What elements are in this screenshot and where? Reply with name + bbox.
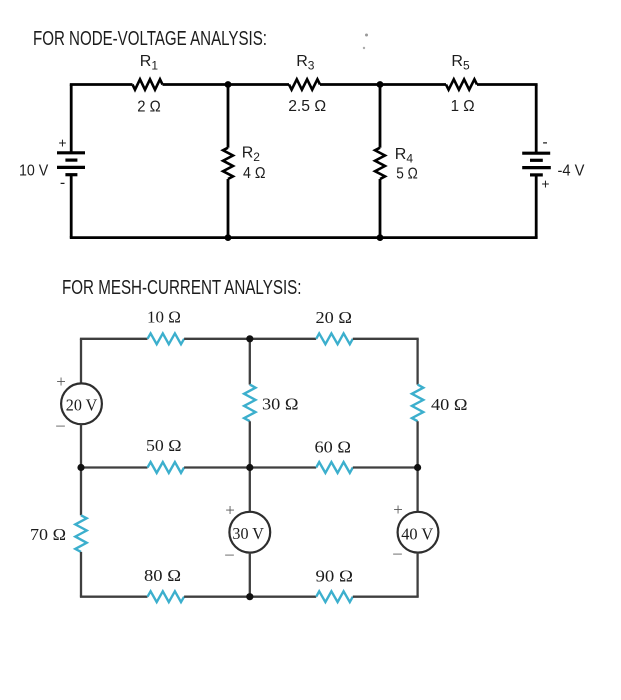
- svg-text:+: +: [56, 372, 66, 391]
- svg-text:2 Ω: 2 Ω: [137, 99, 161, 116]
- svg-text:-: -: [542, 134, 547, 151]
- svg-text:30 V: 30 V: [232, 524, 264, 543]
- svg-text:FOR NODE-VOLTAGE ANALYSIS:: FOR NODE-VOLTAGE ANALYSIS:: [33, 28, 267, 50]
- svg-text:50 Ω: 50 Ω: [146, 436, 182, 455]
- svg-text:90 Ω: 90 Ω: [316, 567, 354, 586]
- svg-text:10 V: 10 V: [19, 163, 49, 180]
- svg-text:–: –: [392, 543, 402, 562]
- svg-text:-4 V: -4 V: [558, 163, 586, 180]
- svg-text:40 V: 40 V: [401, 525, 434, 544]
- svg-text:+: +: [393, 500, 403, 519]
- svg-text:–: –: [55, 415, 65, 434]
- svg-text:20 Ω: 20 Ω: [316, 308, 353, 327]
- svg-text:5 Ω: 5 Ω: [396, 166, 418, 183]
- svg-text:60 Ω: 60 Ω: [315, 437, 352, 456]
- svg-text:40 Ω: 40 Ω: [431, 395, 468, 414]
- svg-text:80 Ω: 80 Ω: [144, 566, 181, 585]
- svg-text:70 Ω: 70 Ω: [30, 525, 66, 544]
- svg-text:+: +: [58, 135, 66, 151]
- svg-text:1 Ω: 1 Ω: [451, 98, 475, 115]
- svg-text:–: –: [224, 544, 234, 563]
- svg-text:4 Ω: 4 Ω: [243, 165, 266, 182]
- svg-text:30 Ω: 30 Ω: [262, 395, 299, 414]
- svg-text:+: +: [225, 501, 235, 520]
- svg-text:+: +: [541, 176, 549, 192]
- svg-text:FOR MESH-CURRENT ANALYSIS:: FOR MESH-CURRENT ANALYSIS:: [62, 277, 302, 299]
- svg-text:2.5 Ω: 2.5 Ω: [288, 98, 326, 115]
- svg-text:10 Ω: 10 Ω: [147, 308, 181, 327]
- svg-text:-: -: [60, 175, 65, 192]
- svg-text:20 V: 20 V: [66, 396, 98, 415]
